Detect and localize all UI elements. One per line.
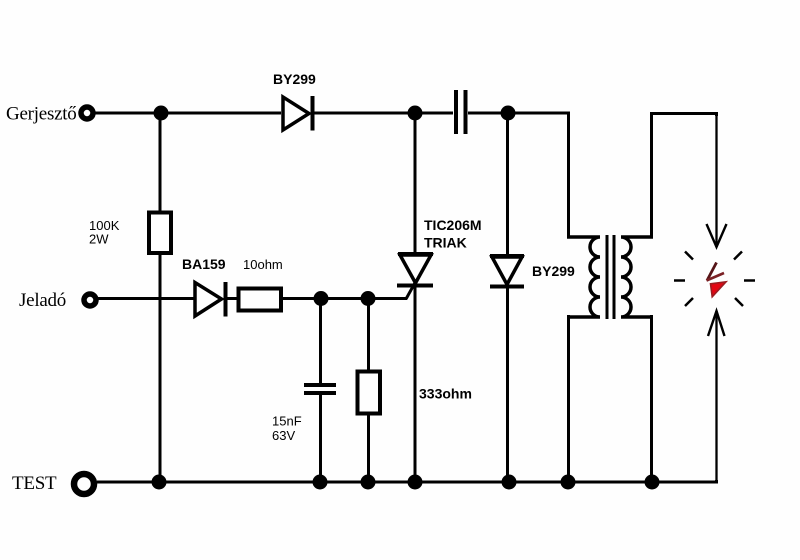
svg-text:63V: 63V: [272, 428, 295, 443]
junction bottom node 1: [152, 475, 167, 490]
wire resistor R1 top lead: [159, 113, 162, 213]
triac Q1 triangle: [400, 255, 431, 283]
triac Q1 top bar: [398, 252, 433, 256]
svg-text:Jeladó: Jeladó: [19, 290, 66, 311]
svg-text:333ohm: 333ohm: [419, 386, 472, 402]
capacitor C1 right plate: [464, 90, 468, 134]
arrow spark gap lower (pointing up): [708, 311, 725, 336]
junction bottom node 4: [408, 475, 423, 490]
transformer T1 core line right: [613, 235, 616, 319]
junction node diode2-top: [501, 106, 516, 121]
wire bottom rail: [97, 480, 717, 482]
svg-text:BY299: BY299: [273, 71, 316, 87]
diode D2 BA159 cathode bar: [224, 282, 228, 317]
arrow spark gap upper (pointing down): [707, 224, 727, 247]
svg-text:TRIAK: TRIAK: [424, 235, 467, 251]
resistor R1 100K body: [149, 213, 171, 254]
wire top right segment: [650, 114, 717, 117]
resistor R2 10ohm body: [239, 289, 282, 311]
spark starburst dash upper-right: [734, 252, 742, 260]
spark starburst dash left: [674, 279, 685, 282]
junction bottom node 2: [313, 475, 328, 490]
resistor R3 333ohm body: [358, 372, 381, 414]
wire triac cathode vertical: [414, 286, 417, 482]
spark starburst dash lower-right: [735, 298, 743, 306]
svg-text:10ohm: 10ohm: [243, 257, 283, 272]
spark starburst dash lower-left: [685, 298, 693, 306]
wire spark gap upper lead: [715, 113, 717, 247]
spark starburst dash upper-left: [685, 252, 693, 260]
svg-text:Gerjesztő: Gerjesztő: [6, 104, 77, 125]
diode D1 BY299 anode triangle: [283, 97, 309, 130]
junction node triac-top: [408, 106, 423, 121]
capacitor C2 15nF bottom plate: [304, 391, 336, 395]
svg-text:TIC206M: TIC206M: [424, 217, 482, 233]
diode D3 BY299 cathode bar: [490, 285, 524, 289]
junction bottom node 6: [561, 475, 576, 490]
wire transformer primary left vertical lower: [567, 315, 570, 482]
transformer T1 primary winding: [567, 237, 600, 317]
wire transformer primary left vertical upper: [567, 113, 570, 239]
wire triac anode vertical: [414, 113, 417, 254]
transformer T1 core line left: [606, 235, 609, 319]
capacitor C2 15nF top plate: [304, 383, 336, 387]
wire resistor R3 bottom lead: [367, 413, 370, 482]
wire gate rail left: [97, 297, 194, 300]
spark red lightning bolt zigzag: [707, 263, 717, 281]
transformer T1 secondary winding: [621, 237, 653, 317]
junction bottom node 3: [361, 475, 376, 490]
wire capacitor C2 bottom lead: [319, 393, 322, 482]
wire top rail right of capacitor: [468, 112, 570, 115]
wire capacitor C2 top lead: [319, 298, 322, 385]
junction top-left node: [154, 106, 169, 121]
svg-text:BA159: BA159: [182, 256, 226, 272]
svg-text:BY299: BY299: [532, 263, 575, 279]
svg-text:15nF: 15nF: [272, 414, 302, 429]
terminal Jelado: [84, 294, 96, 306]
wire top rail left: [94, 112, 281, 115]
junction node res-top: [361, 291, 376, 306]
diode D3 BY299 top bar: [490, 254, 524, 258]
wire transformer secondary right vertical lower: [650, 315, 653, 482]
triac Q1 gate diagonal: [406, 281, 416, 299]
svg-text:TEST: TEST: [12, 473, 57, 494]
wire diode D3 cathode vertical: [506, 287, 509, 482]
diode D1 BY299 cathode bar: [311, 96, 315, 131]
wire spark gap lower lead: [715, 311, 717, 482]
terminal TEST: [74, 474, 94, 494]
wire top rail mid: [313, 112, 453, 115]
terminal Gerjeszto: [81, 107, 93, 119]
diode D3 BY299 triangle: [492, 257, 522, 285]
junction bottom node 7: [645, 475, 660, 490]
svg-text:2W: 2W: [89, 232, 109, 247]
wire gate rail to resistor: [226, 297, 240, 300]
triac Q1 cathode bar: [397, 284, 433, 288]
junction node cap-top: [314, 291, 329, 306]
junction bottom node 5: [502, 475, 517, 490]
spark red lightning bolt tip triangle: [711, 282, 727, 297]
diode D2 BA159 anode triangle: [195, 283, 222, 317]
spark starburst dash right: [744, 279, 755, 282]
wire diode D3 anode vertical: [506, 113, 509, 256]
wire transformer secondary right vertical upper: [650, 113, 653, 239]
wire resistor R1 bottom lead: [159, 252, 162, 482]
wire gate rail mid: [280, 297, 407, 300]
wire resistor R3 top lead: [367, 298, 370, 372]
capacitor C1 left plate: [454, 90, 458, 134]
